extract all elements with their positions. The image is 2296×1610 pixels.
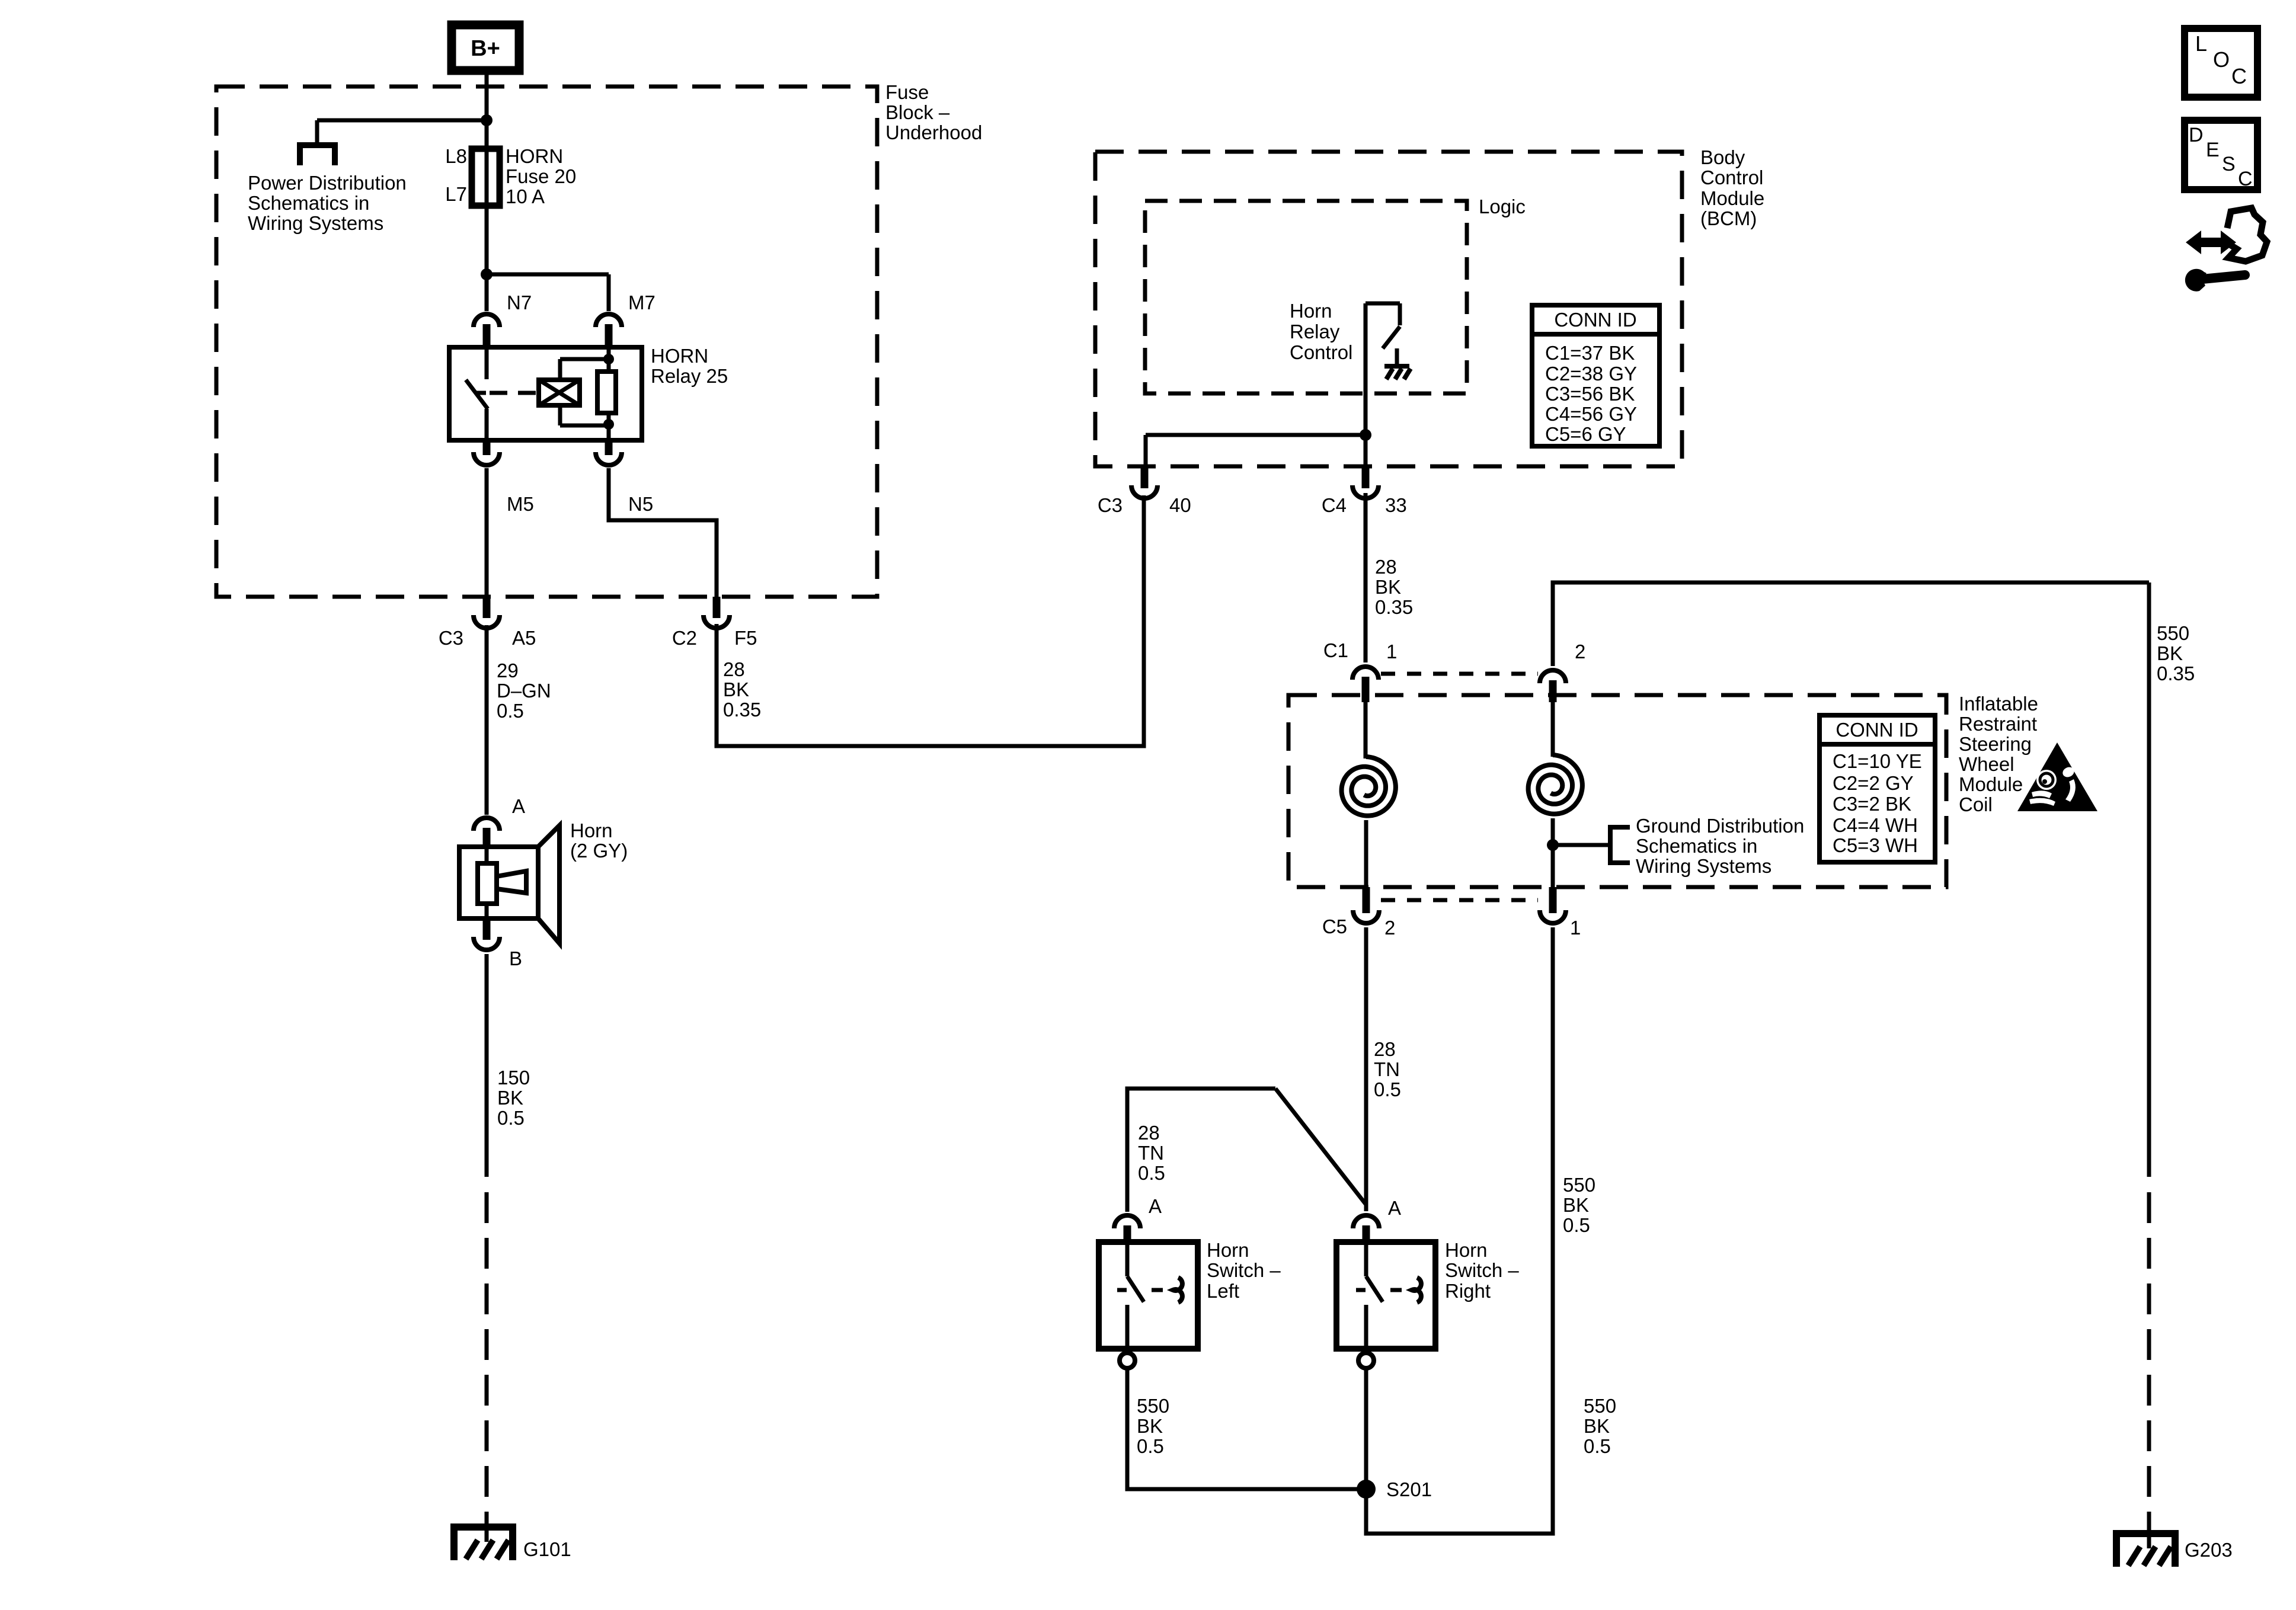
svg-text:C3: C3 <box>439 627 463 649</box>
node relay coil top <box>603 354 614 364</box>
dashed wire to G101 <box>485 1192 489 1521</box>
ground G101 <box>454 1521 513 1560</box>
driver internal ground <box>1384 348 1411 379</box>
svg-text:550: 550 <box>1584 1395 1616 1417</box>
label Logic <box>1479 196 1526 217</box>
fuse HORN Fuse 20 rect <box>472 149 500 206</box>
svg-text:29: 29 <box>497 660 519 681</box>
svg-text:C5: C5 <box>1322 916 1347 937</box>
svg-text:Horn: Horn <box>1445 1239 1488 1261</box>
svg-text:Inflatable: Inflatable <box>1959 693 2038 715</box>
svg-text:0.35: 0.35 <box>723 699 761 721</box>
wire through fuse <box>485 149 489 206</box>
connector N7 <box>474 292 532 347</box>
wire B+ to fuse <box>485 71 489 149</box>
svg-text:Wiring Systems: Wiring Systems <box>248 212 383 234</box>
svg-text:1: 1 <box>1570 917 1581 939</box>
wire junction to M7 branch <box>487 274 609 311</box>
node relay coil bottom <box>603 419 614 430</box>
svg-text:Power Distribution: Power Distribution <box>248 172 407 194</box>
label A (right switch) <box>1388 1197 1401 1219</box>
wire to power distribution callout <box>317 120 489 144</box>
svg-text:CONN ID: CONN ID <box>1835 719 1918 741</box>
svg-text:C4=4 WH: C4=4 WH <box>1833 814 1918 836</box>
svg-text:Fuse: Fuse <box>885 81 929 103</box>
svg-text:Control: Control <box>1290 341 1352 363</box>
svg-text:Ground Distribution: Ground Distribution <box>1636 815 1804 837</box>
horn relay control driver switch <box>1366 303 1400 435</box>
svg-text:S201: S201 <box>1386 1478 1432 1500</box>
wire left switch to S201 <box>1127 1369 1358 1489</box>
connector N5 <box>596 440 653 515</box>
label Power Distribution Schematics in Wiring Systems <box>248 172 407 234</box>
coil CONN ID box <box>1819 715 1935 862</box>
connector C1-1 <box>1323 639 1398 702</box>
horn switch left <box>1099 1215 1198 1368</box>
label Inflatable Restraint Steering Wheel Module Coil <box>1959 693 2038 815</box>
LOC icon box <box>2185 28 2257 97</box>
svg-text:550: 550 <box>2157 622 2189 644</box>
horn cone <box>538 825 559 943</box>
connector horn B <box>474 918 522 969</box>
horn inner element <box>478 863 526 904</box>
svg-text:Fuse 20: Fuse 20 <box>506 165 576 187</box>
power distribution bracket symbol <box>300 145 335 165</box>
svg-text:C1=37 BK: C1=37 BK <box>1545 342 1635 364</box>
svg-text:C1=10 YE: C1=10 YE <box>1833 750 1922 772</box>
svg-text:BK: BK <box>1375 576 1401 598</box>
service icon wrench <box>2185 269 2245 292</box>
svg-text:0.5: 0.5 <box>1138 1162 1165 1184</box>
svg-text:C4: C4 <box>1322 494 1347 516</box>
svg-text:BK: BK <box>497 1087 523 1109</box>
svg-text:0.5: 0.5 <box>1584 1435 1611 1457</box>
svg-text:A: A <box>1388 1197 1401 1219</box>
connector horn A <box>474 795 525 847</box>
label Body Control Module (BCM) <box>1700 146 1764 229</box>
svg-text:Relay: Relay <box>1290 321 1340 343</box>
service icon part outline <box>2227 208 2267 261</box>
wire left switch branch <box>1127 1089 1366 1212</box>
dashed wire to G203 <box>2147 1192 2151 1526</box>
fuse block - underhood dashed box <box>216 87 877 597</box>
svg-text:Body: Body <box>1700 146 1745 168</box>
svg-text:0.35: 0.35 <box>2157 662 2195 684</box>
svg-text:Steering: Steering <box>1959 733 2032 755</box>
wire C3-A5 to horn A <box>485 625 489 815</box>
service icon arrow <box>2186 231 2236 254</box>
svg-text:Logic: Logic <box>1479 196 1526 217</box>
logic dashed box <box>1145 201 1467 393</box>
wire horn B down <box>485 954 489 1177</box>
svg-text:C5=6 GY: C5=6 GY <box>1545 423 1626 445</box>
svg-text:C3: C3 <box>1098 494 1123 516</box>
svg-text:G101: G101 <box>523 1538 571 1560</box>
ground distribution callout bracket <box>1553 827 1630 863</box>
svg-text:(2 GY): (2 GY) <box>570 840 628 862</box>
svg-text:150: 150 <box>497 1067 530 1089</box>
connector M7 <box>596 292 655 347</box>
svg-text:BK: BK <box>1563 1194 1589 1216</box>
coil module dashed box <box>1288 695 1946 887</box>
svg-text:Switch –: Switch – <box>1207 1259 1281 1281</box>
svg-text:B+: B+ <box>471 36 500 61</box>
connector C3-A5 <box>439 597 536 649</box>
label 150 BK 0.5 <box>497 1067 530 1129</box>
power feed B+ box <box>452 25 519 71</box>
svg-text:28: 28 <box>1375 556 1397 578</box>
svg-text:0.35: 0.35 <box>1375 596 1413 618</box>
connector C4-33 <box>1322 466 1407 516</box>
svg-text:D: D <box>2189 124 2204 146</box>
svg-text:D–GN: D–GN <box>497 680 551 702</box>
node junction above relay <box>481 268 493 280</box>
clockspring coil right <box>1528 702 1582 887</box>
svg-text:L: L <box>2195 31 2207 56</box>
svg-text:C4=56 GY: C4=56 GY <box>1545 403 1637 425</box>
relay actuator dashed link <box>490 391 536 395</box>
node BCM junction <box>1360 429 1371 441</box>
label Horn Switch - Right <box>1445 1239 1519 1302</box>
node junction at B+ feed <box>481 114 493 126</box>
wire top horizontal to G203 branch <box>1553 582 2149 666</box>
wire junction to N7 <box>485 274 489 311</box>
svg-text:G203: G203 <box>2185 1539 2233 1561</box>
svg-text:550: 550 <box>1137 1395 1169 1417</box>
svg-text:B: B <box>509 948 522 969</box>
svg-text:C2: C2 <box>672 627 697 649</box>
label 28 BK 0.35 (F5 wire) <box>723 658 761 721</box>
svg-text:Block –: Block – <box>885 101 950 123</box>
svg-text:HORN: HORN <box>651 345 708 367</box>
svg-text:Horn: Horn <box>1290 300 1332 322</box>
svg-text:Switch –: Switch – <box>1445 1259 1519 1281</box>
svg-text:Schematics in: Schematics in <box>1636 835 1757 857</box>
svg-text:Underhood: Underhood <box>885 121 982 143</box>
svg-text:2: 2 <box>1575 641 1585 662</box>
svg-text:550: 550 <box>1563 1174 1595 1196</box>
relay resistor <box>597 347 616 440</box>
ground G203 <box>2116 1526 2175 1567</box>
svg-text:0.5: 0.5 <box>497 700 524 722</box>
svg-text:C: C <box>2238 168 2253 190</box>
wire F5 to BCM C3-40 <box>717 495 1144 746</box>
svg-text:C: C <box>2231 64 2247 88</box>
svg-text:Wheel: Wheel <box>1959 753 2014 775</box>
svg-text:Horn: Horn <box>570 820 613 841</box>
svg-text:2: 2 <box>1384 917 1395 939</box>
svg-text:S: S <box>2222 153 2236 175</box>
svg-text:33: 33 <box>1385 494 1407 516</box>
svg-text:C1: C1 <box>1323 639 1348 661</box>
svg-text:10 A: 10 A <box>506 185 545 207</box>
horn body box <box>459 847 538 918</box>
svg-text:C2=38 GY: C2=38 GY <box>1545 363 1637 385</box>
svg-text:A: A <box>512 795 525 817</box>
label HORN Fuse 20 10 A <box>506 145 576 207</box>
label 550 BK 0.5 (left) <box>1137 1395 1169 1457</box>
svg-text:N5: N5 <box>628 493 653 515</box>
svg-text:Module: Module <box>1959 773 2023 795</box>
svg-text:BK: BK <box>2157 642 2183 664</box>
BCM CONN ID box <box>1532 305 1659 446</box>
DESC icon box <box>2185 120 2257 190</box>
svg-text:O: O <box>2213 47 2230 72</box>
wire right switch to S201 <box>1364 1369 1368 1489</box>
airbag warning triangle <box>2017 742 2097 811</box>
svg-text:Horn: Horn <box>1207 1239 1249 1261</box>
svg-text:Module: Module <box>1700 187 1764 209</box>
relay coil box with X <box>539 380 580 405</box>
connector C2-F5 <box>672 597 757 649</box>
label Fuse Block - Underhood <box>885 81 982 143</box>
horn inner wires <box>485 847 489 918</box>
svg-text:Right: Right <box>1445 1280 1491 1302</box>
svg-text:Restraint: Restraint <box>1959 713 2037 735</box>
svg-text:0.5: 0.5 <box>1374 1078 1401 1100</box>
label L8 <box>445 145 467 167</box>
svg-text:A5: A5 <box>512 627 536 649</box>
wire N5 to C2-F5 <box>609 468 717 598</box>
connector C3-40 <box>1098 466 1191 516</box>
connector M5 <box>474 440 534 515</box>
svg-text:Control: Control <box>1700 167 1763 188</box>
label Horn Switch - Left <box>1207 1239 1281 1302</box>
label 550 BK 0.5 (right branch) <box>1563 1174 1595 1236</box>
relay coil top wire <box>560 359 609 380</box>
label G101 <box>523 1538 571 1560</box>
svg-text:0.5: 0.5 <box>1563 1214 1590 1236</box>
clockspring coil left <box>1342 702 1396 887</box>
relay coil bottom wire <box>560 405 609 425</box>
svg-text:TN: TN <box>1138 1142 1164 1164</box>
svg-text:C5=3 WH: C5=3 WH <box>1833 834 1918 856</box>
wire 1 down to S201 loop <box>1366 927 1553 1534</box>
label HORN Relay 25 <box>651 345 728 387</box>
wire fuse to relay junction <box>485 206 489 274</box>
label 29 D-GN 0.5 <box>497 660 551 722</box>
wire C4-33 down <box>1364 493 1368 662</box>
label 28 TN 0.5 (C5 wire) <box>1374 1038 1401 1100</box>
label G203 <box>2185 1539 2233 1561</box>
svg-text:C2=2 GY: C2=2 GY <box>1833 772 1914 794</box>
label Ground Distribution Schematics in Wiring Systems <box>1636 815 1804 877</box>
svg-text:TN: TN <box>1374 1058 1400 1080</box>
svg-text:28: 28 <box>1138 1122 1160 1144</box>
svg-text:0.5: 0.5 <box>1137 1435 1164 1457</box>
svg-text:1: 1 <box>1386 641 1397 662</box>
svg-text:40: 40 <box>1169 494 1191 516</box>
svg-text:Wiring Systems: Wiring Systems <box>1636 855 1771 877</box>
label L7 <box>445 183 467 205</box>
BCM dashed box <box>1095 152 1682 466</box>
node right coil junction <box>1547 839 1559 851</box>
connector pair dotted line top <box>1381 672 1538 676</box>
wire right vertical to G203 <box>2147 582 2151 1177</box>
svg-text:BK: BK <box>1584 1415 1610 1437</box>
label 550 BK 0.5 (center) <box>1584 1395 1616 1457</box>
label Horn Relay Control <box>1290 300 1352 363</box>
svg-text:C3=2 BK: C3=2 BK <box>1833 793 1911 815</box>
svg-text:28: 28 <box>723 658 745 680</box>
connector pair dotted line bottom <box>1381 898 1538 902</box>
label 28 TN 0.5 (left branch) <box>1138 1122 1165 1184</box>
horn switch right <box>1336 1215 1435 1368</box>
svg-text:Schematics in: Schematics in <box>248 192 369 214</box>
svg-text:L7: L7 <box>445 183 467 205</box>
svg-text:BK: BK <box>723 678 749 700</box>
svg-text:HORN: HORN <box>506 145 563 167</box>
svg-text:CONN ID: CONN ID <box>1554 309 1636 331</box>
svg-text:Left: Left <box>1207 1280 1239 1302</box>
svg-text:F5: F5 <box>734 627 757 649</box>
svg-text:Coil: Coil <box>1959 793 1993 815</box>
BCM internal wires <box>1146 435 1366 466</box>
label 550 BK 0.35 (right) <box>2157 622 2195 684</box>
svg-text:E: E <box>2206 139 2220 161</box>
svg-text:0.5: 0.5 <box>497 1107 525 1129</box>
connector 2 (top) <box>1540 641 1585 702</box>
svg-text:A: A <box>1149 1195 1162 1217</box>
relay switch <box>466 348 488 440</box>
wire C5 down to right switch A <box>1364 927 1368 1211</box>
label Horn (2 GY) <box>570 820 628 862</box>
svg-text:C3=56 BK: C3=56 BK <box>1545 383 1635 405</box>
svg-text:Relay 25: Relay 25 <box>651 365 728 387</box>
splice S201 <box>1357 1478 1432 1500</box>
svg-text:M5: M5 <box>507 493 534 515</box>
label A (left switch) <box>1149 1195 1162 1217</box>
connector C5-2 <box>1322 887 1396 939</box>
svg-text:(BCM): (BCM) <box>1700 207 1757 229</box>
svg-text:BK: BK <box>1137 1415 1163 1437</box>
connector 1 (bottom) <box>1540 887 1581 939</box>
svg-text:L8: L8 <box>445 145 467 167</box>
label 28 BK 0.35 (C4 wire) <box>1375 556 1413 618</box>
relay HORN Relay 25 box <box>449 347 642 440</box>
svg-text:N7: N7 <box>507 292 532 313</box>
svg-text:M7: M7 <box>628 292 655 313</box>
svg-text:28: 28 <box>1374 1038 1396 1060</box>
wire M5 to C3-A5 <box>485 468 489 598</box>
